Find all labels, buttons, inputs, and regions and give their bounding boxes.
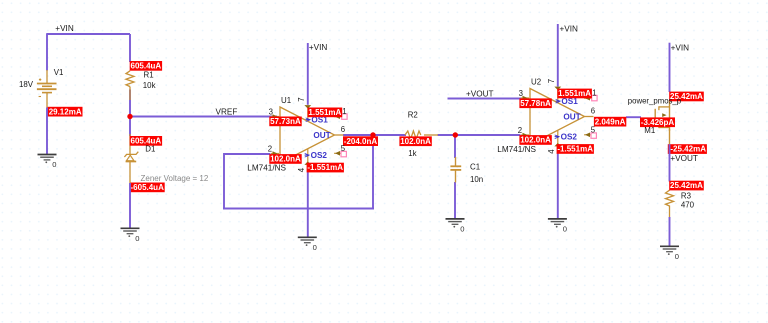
ground C1 (446, 219, 465, 234)
svg-text:1k: 1k (408, 149, 416, 158)
current label R2 (399, 136, 431, 146)
svg-text:LM741/NS: LM741/NS (247, 164, 286, 173)
wire D1 anode lead (129, 134, 131, 154)
svg-text:1: 1 (592, 88, 596, 97)
current label M1 source (669, 92, 704, 102)
svg-text:R2: R2 (408, 110, 418, 119)
current label U2 pin4 (557, 144, 594, 154)
svg-text:-1.551mA: -1.551mA (557, 145, 593, 154)
net label +VIN (V1) (55, 24, 74, 33)
svg-text:0: 0 (563, 225, 567, 234)
svg-text:4: 4 (297, 167, 306, 172)
svg-text:1.551mA: 1.551mA (308, 108, 341, 117)
svg-text:57.78nA: 57.78nA (520, 99, 551, 108)
current label M1 drain (wire passes over) (668, 144, 707, 154)
U1 pin name OS2 (304, 151, 327, 160)
current label U1 pin2 (269, 154, 301, 164)
svg-text:0: 0 (460, 225, 464, 234)
U2 pin 1 number (592, 88, 596, 97)
pmos transistor M1 (655, 100, 670, 131)
value LM741/NS (U1) (247, 164, 286, 173)
current label R3 (669, 181, 704, 191)
net label +VOUT (U2) (466, 89, 494, 98)
svg-text:D1: D1 (145, 144, 155, 153)
svg-text:25.42mA: 25.42mA (670, 181, 703, 190)
net label VREF (216, 107, 238, 116)
svg-text:OUT: OUT (313, 131, 330, 140)
svg-text:+VIN: +VIN (55, 24, 74, 33)
U1 pin name OUT (313, 131, 330, 140)
label U1 (281, 96, 291, 105)
svg-text:OS1: OS1 (561, 97, 578, 106)
capacitor C1 (450, 157, 461, 183)
svg-text:102.0nA: 102.0nA (400, 137, 431, 146)
svg-text:U1: U1 (281, 96, 291, 105)
svg-text:C1: C1 (470, 162, 480, 171)
U1 pin 5 number (341, 144, 346, 153)
svg-text:18V: 18V (19, 80, 34, 89)
svg-text:+VOUT: +VOUT (466, 89, 494, 98)
wire R3 bottom lead (669, 206, 671, 219)
wire U1 output (343, 134, 374, 136)
wire U1 feedback left (223, 153, 225, 210)
svg-text:VREF: VREF (216, 107, 238, 116)
svg-text:-25.42mA: -25.42mA (670, 145, 706, 154)
value 470 (681, 201, 695, 210)
svg-text:29.12mA: 29.12mA (49, 107, 82, 116)
svg-text:2: 2 (268, 145, 272, 154)
wire D1 cathode lead (129, 161, 131, 183)
wire V1 bottom lead (46, 93, 48, 108)
wire U1 +VIN supply (307, 43, 309, 105)
svg-text:+VOUT: +VOUT (670, 154, 698, 163)
svg-text:+VIN: +VIN (560, 25, 579, 34)
svg-text:605.4uA: 605.4uA (131, 62, 162, 71)
U2 pin 6 number (591, 107, 595, 116)
ground D1 (121, 228, 140, 243)
ground U2 (548, 219, 567, 234)
current label U1 pin4 (307, 163, 344, 173)
svg-text:10k: 10k (143, 81, 156, 90)
wire D1 top (129, 117, 131, 137)
svg-text:OUT: OUT (563, 112, 580, 121)
current label U1 pin7 (308, 108, 343, 118)
value 10k (143, 81, 156, 90)
svg-text:7: 7 (297, 97, 306, 101)
op-amp U2 (521, 87, 597, 147)
svg-text:-204.0nA: -204.0nA (344, 137, 378, 146)
wire node VREF to U1 pin3 (129, 116, 277, 118)
wire M1 +VIN supply (669, 43, 671, 92)
value 18V (19, 80, 34, 89)
svg-text:2: 2 (518, 126, 522, 135)
U1 pin 7 number (297, 97, 306, 101)
svg-text:3: 3 (269, 108, 273, 117)
svg-text:0: 0 (52, 160, 56, 169)
label R1 (144, 71, 154, 80)
junction node C1 (453, 132, 458, 137)
svg-text:power_pmos_p: power_pmos_p (628, 96, 682, 105)
resistor R3 (666, 190, 674, 206)
svg-text:+VIN: +VIN (309, 43, 328, 52)
net label +VOUT (M1) (670, 154, 698, 163)
wire +VOUT node (669, 155, 671, 182)
svg-text:102.0nA: 102.0nA (270, 155, 301, 164)
wire C1 top (454, 134, 456, 158)
label D1 (145, 144, 155, 153)
U2 pin 7 number (547, 79, 556, 83)
current label U2 output (594, 117, 626, 127)
wire U2 output to M1 gate (626, 116, 641, 118)
net label +VIN (M1) (671, 43, 690, 52)
wire V1 to ground (46, 108, 48, 155)
U1 pin 6 number (341, 125, 345, 134)
net label +VIN (U1) (309, 43, 328, 52)
svg-text:-605.4uA: -605.4uA (131, 183, 165, 192)
U2 pin 5 number (591, 126, 596, 135)
wire R2 to node (438, 134, 457, 136)
label V1 (54, 68, 64, 77)
ground U1 (298, 237, 317, 252)
label R3 (681, 191, 692, 200)
svg-text:4: 4 (547, 149, 556, 154)
ground V1 (38, 155, 57, 170)
svg-text:U2: U2 (531, 78, 541, 87)
net label +VIN (U2) (560, 25, 579, 34)
U2 pin 3 number (519, 89, 523, 98)
wire D1 to ground (129, 183, 131, 229)
junction node VREF (127, 114, 132, 119)
U1 pin 2 number (268, 145, 272, 154)
U1 pin name OS1 (305, 116, 328, 125)
U2 pin name OS2 (554, 133, 577, 142)
wire +VIN rail top-left (47, 33, 130, 70)
current label D1 bottom (wire passes over) (130, 183, 165, 193)
wire R1 top (129, 34, 131, 62)
svg-text:V1: V1 (54, 68, 64, 77)
svg-text:Zener Voltage = 12: Zener Voltage = 12 (141, 174, 209, 183)
svg-text:R1: R1 (144, 71, 154, 80)
wire to R2 (373, 134, 406, 136)
junction U1 output (370, 132, 375, 137)
wire C1 to ground (454, 182, 456, 220)
current label U2 pin3 (519, 98, 551, 108)
wire +VOUT to U2 pin3 (448, 98, 528, 100)
svg-text:-1.551mA: -1.551mA (307, 163, 343, 172)
label R2 (408, 110, 418, 119)
note zener voltage (141, 174, 209, 183)
svg-text:470: 470 (681, 201, 695, 210)
svg-text:OS2: OS2 (311, 151, 328, 160)
svg-text:57.73nA: 57.73nA (270, 117, 301, 126)
label C1 (470, 162, 480, 171)
U2 pin name OS1 (555, 97, 578, 106)
current label U1 pin3 (269, 117, 301, 127)
label power_pmos_p (628, 96, 682, 105)
svg-text:0: 0 (675, 252, 679, 261)
resistor R1 (126, 71, 134, 100)
svg-text:+VIN: +VIN (671, 43, 690, 52)
wire U2 pin4 to ground (557, 153, 559, 220)
svg-text:6: 6 (591, 107, 595, 116)
label M1 (644, 126, 655, 135)
U2 pin name OUT (563, 112, 580, 121)
svg-text:LM741/NS: LM741/NS (497, 145, 536, 154)
value 10n (470, 175, 483, 184)
U2 pin 4 number (547, 149, 556, 154)
wire U1 feedback bottom (223, 208, 374, 210)
svg-text:2.049nA: 2.049nA (595, 117, 626, 126)
wire V1 top lead (46, 70, 48, 84)
wire M1 drain to +VOUT (669, 144, 671, 156)
label U2 (531, 78, 541, 87)
wire R1 bottom (129, 90, 131, 118)
wire U1 pin2 (224, 153, 271, 155)
current label V1 (wire passes over) (47, 107, 83, 117)
wire node to U2 pin2 (455, 134, 521, 136)
battery V1 (37, 78, 57, 96)
op-amp U1 (271, 105, 347, 165)
current label U2 pin2 (519, 135, 551, 145)
svg-text:3: 3 (519, 89, 523, 98)
current label U1 output (343, 136, 378, 146)
zener diode D1 (124, 152, 138, 162)
wire U1 pin4 to ground (307, 172, 309, 238)
value 1k (408, 149, 416, 158)
svg-text:M1: M1 (644, 126, 655, 135)
svg-text:102.0nA: 102.0nA (520, 136, 551, 145)
current label M1 gate (640, 117, 675, 127)
resistor R2 (405, 131, 438, 139)
current label U2 pin7 (557, 89, 592, 99)
svg-text:0: 0 (135, 234, 139, 243)
svg-text:5: 5 (341, 144, 346, 153)
svg-text:7: 7 (547, 79, 556, 83)
ground R3 (660, 246, 679, 261)
svg-text:6: 6 (341, 125, 345, 134)
U2 pin 2 number (518, 126, 522, 135)
wire R3 to ground (669, 217, 671, 247)
svg-text:R3: R3 (681, 191, 692, 200)
svg-text:1: 1 (342, 107, 346, 116)
wire M1 drain lead (669, 129, 671, 144)
svg-text:5: 5 (591, 126, 596, 135)
current label D1 top (130, 136, 162, 146)
U1 pin 1 number (342, 107, 346, 116)
wire U1 feedback right (372, 134, 374, 210)
current label R1 (130, 61, 162, 71)
U1 pin 4 number (297, 167, 306, 172)
U1 pin 3 number (269, 108, 273, 117)
svg-text:1.551mA: 1.551mA (558, 89, 591, 98)
svg-text:10n: 10n (470, 175, 483, 184)
svg-text:OS2: OS2 (561, 133, 578, 142)
wire U2 +VIN supply (557, 24, 559, 87)
svg-text:0: 0 (313, 243, 317, 252)
value LM741/NS (U2) (497, 145, 536, 154)
